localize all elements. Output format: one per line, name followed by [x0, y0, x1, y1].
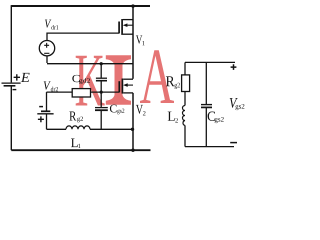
node dot gate junction: [100, 91, 103, 94]
capacitor C_gs2 right: [205, 62, 207, 104]
label V_dr2: [44, 81, 58, 91]
transistor V2: [121, 79, 123, 94]
label L1: [71, 139, 80, 148]
wire bottom rail L1: [11, 149, 150, 151]
capacitor C_gd2: [100, 64, 102, 78]
battery plus: [38, 116, 44, 122]
battery E: [2, 82, 21, 84]
plus terminal: [231, 64, 237, 70]
wire gate V1: [46, 33, 119, 41]
wire coil to bottom: [185, 125, 234, 146]
label + of E: [14, 74, 20, 80]
label V_gs2: [230, 98, 245, 110]
wire gate V2: [47, 91, 120, 93]
node dot C_gd2 top: [100, 62, 103, 65]
label L2: [168, 112, 178, 123]
label C_gs2: [110, 105, 124, 115]
resistor box gate: [72, 89, 90, 97]
label C_gd2: [72, 75, 90, 84]
capacitor C_gs2: [100, 92, 102, 107]
label V_dr1: [45, 20, 58, 30]
watermark KIA: [76, 50, 174, 105]
resistor R_g2 right box: [182, 75, 190, 92]
wire box to coil: [184, 92, 186, 106]
wire bottom gate loop: [47, 128, 133, 130]
battery minus: [39, 106, 43, 108]
label C_gs2 right: [208, 112, 224, 124]
minus terminal: [230, 142, 237, 144]
resistor R_g2 humps: [66, 126, 90, 129]
label V2: [136, 105, 146, 116]
source V_dr1: [39, 41, 54, 56]
wire source node V1: [47, 56, 133, 64]
inductor L2: [183, 106, 186, 126]
wire left rail lower: [10, 86, 12, 150]
node dot V2 source bottom: [131, 149, 134, 152]
node dot V1 drain: [131, 4, 134, 7]
label R_g2: [69, 112, 83, 123]
wire right left branch: [184, 62, 186, 75]
wire V2 source vertical: [132, 93, 134, 150]
wire left rail upper: [10, 5, 12, 82]
battery V_dr2: [46, 92, 48, 110]
label E: [21, 73, 30, 82]
battery E minus label: [13, 89, 17, 91]
wire right top: [185, 61, 235, 63]
label R_g2 right: [166, 76, 180, 89]
label V1: [136, 35, 145, 45]
transistor V1: [121, 19, 123, 35]
wire top rail: [11, 5, 150, 7]
node dot bottom gate loop: [131, 128, 134, 131]
wire V1 drain-source vertical: [132, 6, 134, 79]
